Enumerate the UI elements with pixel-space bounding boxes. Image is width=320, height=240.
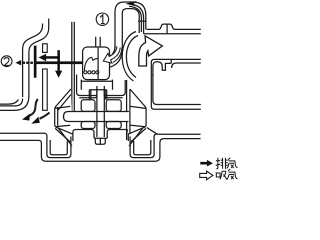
exhaust pipe lower bend exiting left — [0, 96, 29, 110]
row C fins — [81, 122, 95, 129]
reed spring coils — [84, 71, 99, 74]
dashed exhaust arrow at 2 — [15, 60, 32, 65]
crankcase outline — [0, 139, 201, 162]
pipe clamp tick — [138, 20, 147, 22]
reed valve box U1 — [83, 47, 110, 80]
hairpin pipe — [115, 2, 146, 50]
stud slot upper — [43, 44, 48, 53]
transfer port U left — [45, 128, 72, 157]
callout circle 2 — [1, 56, 12, 67]
center column — [97, 90, 104, 137]
air chamber outer — [151, 59, 201, 109]
stub pipe above reed box — [96, 37, 101, 47]
head staple — [89, 90, 106, 100]
cylinder head top lines — [144, 24, 201, 34]
exhaust S-arrow B — [31, 113, 49, 124]
stud slot lower — [43, 69, 48, 110]
black left arrow — [39, 54, 60, 62]
exhaust port thick line — [37, 61, 83, 64]
black down arrow — [55, 50, 62, 78]
row B fins — [81, 100, 95, 112]
head pipe pair (tall thin) — [72, 22, 75, 112]
crankcase top line left — [0, 132, 45, 134]
legend solid arrow (exhaust) — [200, 160, 213, 167]
exhaust S-arrow A — [22, 99, 38, 121]
legend text haiki — [216, 158, 238, 169]
intake arrow into reed box — [103, 46, 122, 63]
black flow arrowhead on hairpin — [125, 1, 137, 6]
legend text kyuki — [216, 169, 237, 180]
engine center block upper — [77, 75, 127, 141]
row D shapes — [73, 130, 94, 142]
transfer port U right — [129, 128, 156, 157]
row A fins — [77, 75, 97, 96]
air chamber inner — [153, 59, 201, 104]
outer cylinder walls — [126, 80, 128, 140]
exhaust flange thick bar — [34, 46, 37, 78]
crankcase line right upper — [147, 128, 201, 135]
engine center block lower — [64, 112, 131, 145]
exhaust port cone left — [55, 89, 73, 134]
reed inlet curve (pipe into box) — [107, 46, 122, 67]
reed petal dome — [84, 57, 98, 70]
callout circle 1 — [96, 13, 108, 25]
legend outline arrow (intake) — [200, 171, 213, 180]
big intake arrow — [139, 36, 163, 66]
crossband — [64, 112, 131, 122]
exhaust pipe upper S-bend — [23, 19, 49, 98]
intake port cone right — [128, 89, 146, 134]
manifold below reed box — [80, 80, 82, 90]
intake duct arcs — [122, 32, 138, 82]
